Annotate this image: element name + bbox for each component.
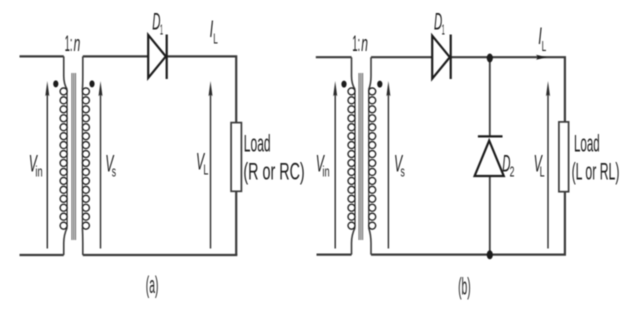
label IL (a): [210, 16, 218, 48]
wire: (b) primary top: [316, 56, 352, 58]
wire: transformer T (b) primary bottom lead: [352, 228, 356, 255]
label Vs (b): [394, 151, 405, 181]
svg-text:1:: 1:: [352, 31, 360, 56]
label Vin (b): [316, 151, 330, 181]
wire: (b) secondary bottom: [371, 254, 566, 256]
transformer T (a) core: [72, 73, 76, 240]
junction dot (b) junction bottom: [487, 250, 493, 259]
svg-text:Load: Load: [574, 130, 600, 157]
wire: transformer T (b) secondary top lead: [369, 57, 371, 89]
junction dot (b) junction top: [487, 54, 493, 63]
svg-text:n: n: [74, 31, 81, 56]
polarity dot (b) primary: [341, 81, 346, 88]
svg-text:in: in: [322, 164, 329, 181]
polarity dot (a) secondary: [89, 80, 94, 87]
diode D1 (a): [148, 35, 167, 80]
arrow for Vs (b) (voltage reference, points up): [386, 81, 390, 249]
label VL (b): [534, 150, 545, 180]
label D1 (b): [434, 9, 445, 39]
svg-text:s: s: [401, 164, 405, 181]
label 1:n (a): [65, 31, 81, 56]
wire: (b) cathode to load with right rail: [451, 57, 565, 122]
label D2: [502, 150, 514, 180]
svg-text:(a): (a): [146, 272, 159, 299]
svg-text:1:: 1:: [65, 31, 73, 56]
svg-text:2: 2: [510, 164, 515, 181]
svg-text:n: n: [361, 31, 368, 56]
wire: (a) primary bottom: [20, 254, 64, 256]
transformer T (b) secondary winding: [369, 88, 376, 229]
diode D1 (b): [432, 35, 451, 80]
transformer T (a) secondary winding: [82, 88, 89, 229]
svg-text:Load: Load: [244, 130, 271, 157]
svg-text:1: 1: [442, 21, 445, 38]
label Vs (a): [105, 151, 116, 181]
wire: (b) secondary top, anode side: [371, 56, 432, 58]
svg-text:L: L: [542, 38, 547, 55]
svg-text:(b): (b): [458, 273, 471, 300]
svg-text:(R or RC): (R or RC): [243, 158, 304, 185]
wire: (a) cathode to load, with right rail: [167, 56, 236, 122]
label 1:n (b): [352, 31, 368, 56]
wire: (b) primary bottom: [317, 254, 352, 256]
wire: transformer T (a) secondary top lead: [81, 56, 83, 89]
wire: transformer T (a) secondary bottom lead: [81, 228, 83, 255]
arrow for Vin (a) (voltage reference, points up): [45, 81, 49, 249]
wire: transformer T (a) primary bottom lead: [64, 228, 67, 255]
arrow for Vin (b) (voltage reference, points up): [333, 81, 337, 249]
label Vin (a): [29, 151, 43, 181]
wire: (b) freewheel branch bottom: [489, 176, 491, 255]
wire: transformer T (b) secondary bottom lead: [369, 228, 371, 255]
label D1 (a): [152, 9, 163, 39]
wire: transformer T (b) primary top lead: [352, 57, 356, 89]
diode D2 (freewheeling, points up): [475, 136, 504, 176]
polarity dot (a) primary: [53, 80, 58, 87]
svg-text:s: s: [112, 164, 116, 181]
arrow for VL (b) (voltage reference, points up): [546, 81, 550, 249]
wire: (b) load bottom lead: [564, 192, 566, 255]
wire: (a) load bottom lead: [235, 191, 237, 255]
current arrowhead IL (b): [536, 55, 547, 60]
svg-text:(L or RL): (L or RL): [572, 158, 620, 185]
load box (b): [559, 122, 569, 192]
wire: transformer T (a) primary top lead: [64, 56, 67, 89]
wire: (b) freewheel branch top: [489, 57, 491, 136]
transformer T (b) core: [359, 73, 363, 240]
load box (a): [231, 123, 241, 192]
label IL (b): [538, 23, 546, 55]
svg-text:in: in: [35, 164, 42, 181]
wire: (a) primary top: [20, 55, 64, 57]
svg-text:1: 1: [160, 21, 163, 38]
svg-text:L: L: [203, 161, 208, 178]
arrow for VL (a) (voltage reference, points up): [209, 81, 213, 249]
arrow for Vs (a) (voltage reference, points up): [99, 81, 103, 249]
label VL (a): [196, 148, 208, 178]
wire: (a) secondary bottom: [83, 254, 238, 256]
svg-text:L: L: [213, 31, 218, 48]
polarity dot (b) secondary: [377, 81, 382, 88]
transformer T (b) primary winding: [348, 88, 355, 229]
wire: (a) secondary top, anode side: [83, 55, 148, 57]
svg-text:L: L: [540, 164, 545, 181]
transformer T (a) primary winding: [60, 88, 67, 229]
